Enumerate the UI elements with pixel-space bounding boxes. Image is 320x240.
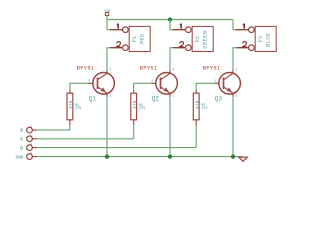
- junction on +12V bus at P2 drop: [168, 17, 172, 21]
- svg-text:B: B: [20, 146, 23, 152]
- connector P3 pin 2: [236, 42, 254, 51]
- wire Q3 emitter down: [232, 97, 234, 157]
- svg-text:GREEN: GREEN: [203, 30, 209, 48]
- Q1 pin numbers: [88, 67, 111, 98]
- wire net B: [37, 147, 196, 149]
- label R2 value 470 rotated: [132, 100, 138, 109]
- label R1 value 470 rotated: [68, 100, 74, 109]
- wire net R: [37, 129, 70, 131]
- svg-text:2: 2: [214, 79, 216, 83]
- wire P3 pin2 to Q3 collector: [233, 48, 236, 70]
- label BFY51 of Q3: [203, 64, 221, 71]
- svg-text:1: 1: [235, 94, 237, 98]
- wire R1 to Q1 base: [70, 83, 89, 90]
- label net B: [20, 146, 23, 152]
- svg-text:Q1: Q1: [89, 95, 97, 102]
- svg-text:RED: RED: [140, 34, 146, 44]
- wire R3 to net B: [195, 125, 197, 147]
- resistor R3 470: [193, 90, 199, 125]
- wire net GND: [37, 156, 243, 158]
- svg-text:470: 470: [201, 107, 207, 111]
- wire P3 pin1 drop: [233, 20, 236, 30]
- svg-text:470: 470: [68, 100, 74, 109]
- labels R2 / 470: [139, 104, 145, 111]
- wire R1 to net R: [69, 125, 71, 130]
- connector P2 pin 2: [173, 42, 191, 51]
- transistor Q1 BFY51: [89, 70, 115, 97]
- wire R2 to net G: [133, 125, 135, 139]
- transistor Q3 BFY51: [215, 70, 241, 97]
- input pin R: [27, 126, 38, 133]
- Q2 pin numbers: [151, 67, 174, 98]
- +12V supply symbol: [103, 9, 110, 15]
- wire +12V stub: [106, 16, 108, 20]
- svg-text:470: 470: [139, 107, 145, 111]
- wire net G: [37, 138, 134, 140]
- input pin B: [27, 143, 38, 150]
- svg-text:3: 3: [109, 67, 111, 71]
- svg-text:3: 3: [172, 67, 174, 71]
- wire P2 pin2 to Q2 collector: [170, 48, 173, 70]
- connector P3 pin 1: [236, 24, 254, 33]
- label Q3: [215, 95, 223, 102]
- svg-text:R: R: [20, 128, 23, 134]
- svg-text:BLUE: BLUE: [266, 33, 272, 47]
- input pin GND: [27, 152, 38, 159]
- label BFY51 of Q1: [77, 64, 95, 71]
- label Q2: [152, 95, 160, 102]
- svg-text:P2: P2: [195, 36, 201, 43]
- svg-text:470: 470: [75, 107, 81, 111]
- svg-text:Q2: Q2: [152, 95, 160, 102]
- svg-text:BFY51: BFY51: [77, 64, 95, 71]
- svg-text:2: 2: [88, 79, 90, 83]
- wire Q1 emitter down: [106, 97, 108, 157]
- connector P2 value GREEN: [203, 30, 209, 48]
- svg-text:Q3: Q3: [215, 95, 223, 102]
- connector P3 value BLUE: [266, 33, 272, 47]
- input pin G: [27, 134, 38, 141]
- svg-text:1: 1: [109, 94, 111, 98]
- label Q1: [89, 95, 97, 102]
- svg-text:P3: P3: [258, 36, 264, 43]
- svg-text:3: 3: [235, 67, 237, 71]
- ground symbol: [239, 157, 248, 161]
- svg-text:BFY51: BFY51: [140, 64, 158, 71]
- svg-text:P1: P1: [132, 36, 138, 43]
- labels R3 / 470: [201, 104, 207, 111]
- connector P1 value RED: [140, 34, 146, 44]
- svg-text:+12V: +12V: [103, 9, 110, 13]
- connector P1 pin 1: [110, 24, 128, 33]
- wire P1 pin1 drop: [107, 20, 110, 30]
- label net G: [20, 137, 23, 143]
- svg-text:470: 470: [195, 100, 201, 109]
- svg-text:G: G: [20, 137, 23, 143]
- label net R: [20, 128, 23, 134]
- connector P3 body: [255, 26, 276, 51]
- svg-text:2: 2: [151, 79, 153, 83]
- connector P1 body: [129, 26, 150, 51]
- transistor Q2 BFY51: [152, 70, 178, 97]
- wire P2 pin1 drop: [170, 20, 173, 30]
- svg-text:BFY51: BFY51: [203, 64, 221, 71]
- labels R1 / 470: [75, 104, 81, 111]
- connector P2 body: [192, 26, 213, 51]
- label BFY51 of Q2: [140, 64, 158, 71]
- resistor R2 470: [131, 90, 137, 125]
- connector P2 pin 1: [173, 24, 191, 33]
- junction on GND net: [168, 155, 172, 159]
- Q3 pin numbers: [214, 67, 237, 98]
- label net GND: [15, 155, 23, 161]
- svg-text:1: 1: [172, 94, 174, 98]
- wire R3 to Q3 base: [196, 83, 214, 90]
- wire +12V bus: [107, 19, 233, 21]
- wire Q2 emitter down: [169, 97, 171, 157]
- wire R2 to Q2 base: [134, 83, 152, 90]
- connector P1 pin 2: [110, 42, 128, 51]
- svg-text:GND: GND: [15, 155, 23, 161]
- svg-text:470: 470: [132, 100, 138, 109]
- wire P1 pin2 to Q1 collector: [107, 48, 110, 70]
- junction on GND net: [105, 155, 109, 159]
- resistor R1 470: [67, 90, 73, 125]
- junction on GND net: [231, 155, 235, 159]
- label R3 value 470 rotated: [195, 100, 201, 109]
